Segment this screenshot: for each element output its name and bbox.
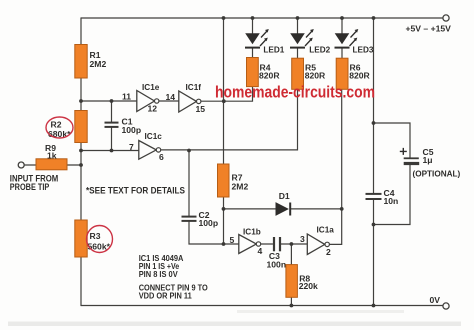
junction top rail / C4 column xyxy=(372,16,376,20)
svg-text:2M2: 2M2 xyxy=(232,181,249,191)
junction C3 / R8 / IC1a input xyxy=(290,242,294,246)
wire R1 bottom to R2 top xyxy=(80,78,82,111)
svg-text:*SEE TEXT FOR DETAILS: *SEE TEXT FOR DETAILS xyxy=(86,186,185,196)
svg-text:100p: 100p xyxy=(199,218,219,228)
wire IC1c input row xyxy=(81,150,139,152)
wire C2 top lead xyxy=(188,151,190,217)
svg-text:PIN 8 IS 0V: PIN 8 IS 0V xyxy=(139,269,178,279)
svg-text:14: 14 xyxy=(166,92,176,102)
svg-text:12: 12 xyxy=(148,104,158,114)
junction R9 / left column xyxy=(79,163,83,167)
wire input terminal to R9 xyxy=(24,164,36,166)
svg-text:220k: 220k xyxy=(299,281,318,291)
svg-text:IC1c: IC1c xyxy=(145,132,163,141)
red circle highlight around R2 xyxy=(46,117,73,138)
svg-text:820R: 820R xyxy=(349,71,370,81)
junction top rail / LED3 xyxy=(340,16,344,20)
capacitor C4 xyxy=(366,194,382,199)
wire IC1a output to LED3 column xyxy=(329,209,341,245)
resistor R8 xyxy=(286,265,318,298)
op-amp U1 inverter IC1a xyxy=(300,226,334,258)
op-amp U1 inverter IC1b xyxy=(230,228,263,257)
capacitor C3 xyxy=(274,237,280,251)
svg-text:homemade-circuits.com: homemade-circuits.com xyxy=(215,83,375,102)
LED D3 LED2 xyxy=(290,29,331,55)
wire C4 bottom to 0V rail xyxy=(373,200,375,306)
junction top rail / LED2 xyxy=(296,16,300,20)
svg-text:0V: 0V xyxy=(430,295,441,305)
junction C4 column / C5 top branch xyxy=(372,121,376,125)
svg-text:+5V – +15V: +5V – +15V xyxy=(406,24,452,34)
wire C1 bottom lead xyxy=(111,128,113,151)
resistor R6 xyxy=(336,58,370,89)
svg-text:2M2: 2M2 xyxy=(90,59,107,69)
svg-text:VDD OR PIN 11: VDD OR PIN 11 xyxy=(139,291,192,301)
svg-text:PROBE TIP: PROBE TIP xyxy=(10,182,50,192)
svg-text:820R: 820R xyxy=(259,70,280,80)
svg-text:LED1: LED1 xyxy=(263,46,284,55)
wire top supply rail xyxy=(81,17,443,19)
LED D2 LED1 xyxy=(245,29,285,55)
svg-text:15: 15 xyxy=(196,104,206,114)
wire supply rail down to C4 xyxy=(373,18,375,193)
junction IC1f output / R7 column xyxy=(222,99,226,103)
wire C5 top branch xyxy=(374,123,411,158)
resistor R9 xyxy=(36,143,67,170)
wire R1 top lead xyxy=(80,18,82,45)
op-amp U1 inverter IC1c xyxy=(129,132,164,162)
wire R7 bottom lead xyxy=(223,197,225,209)
wire IC1e output to IC1f input xyxy=(159,100,179,102)
wire IC1f output to R4 bottom xyxy=(201,87,253,102)
wire LED1 cathode to R4 xyxy=(252,49,254,58)
junction top rail / LED1 xyxy=(251,16,255,20)
wire bottom 0V rail xyxy=(81,305,443,307)
resistor R2 xyxy=(48,111,87,143)
svg-text:1μ: 1μ xyxy=(423,155,433,165)
wire R2 bottom to R3 top xyxy=(80,143,82,221)
wire R3 bottom to 0V rail xyxy=(80,257,82,306)
label IC1 notes xyxy=(139,253,208,301)
capacitor C2 xyxy=(182,217,197,221)
junction C1 bottom xyxy=(110,149,114,153)
junction C4 column / C5 bottom branch xyxy=(372,223,376,227)
resistor R3 xyxy=(75,220,111,257)
svg-text:3: 3 xyxy=(300,234,305,244)
capacitor C5 polarized xyxy=(400,147,461,179)
svg-text:820R: 820R xyxy=(305,71,326,81)
wire supply rail down to R7 top xyxy=(223,18,225,164)
junction C4 column / 0V rail xyxy=(372,304,376,308)
svg-text:IC1e: IC1e xyxy=(142,83,160,92)
svg-text:100p: 100p xyxy=(122,125,142,135)
wire LED2 cathode to R5 xyxy=(297,49,299,59)
junction node A at R1/R2 xyxy=(79,99,83,103)
svg-text:LED2: LED2 xyxy=(309,46,330,55)
wire LED3 top lead xyxy=(341,18,343,33)
junction R7 bottom / D1 row xyxy=(222,207,226,211)
resistor R4 xyxy=(247,58,281,87)
capacitor C1 xyxy=(105,123,119,127)
wire C3 to IC1a input xyxy=(281,243,307,245)
junction R2 bottom row xyxy=(79,149,83,153)
svg-text:LED3: LED3 xyxy=(353,46,374,55)
svg-text:R2: R2 xyxy=(51,120,62,130)
terminal +5V supply xyxy=(443,15,449,21)
junction D1 column / IC1b input row xyxy=(222,242,226,246)
wire R8 top lead xyxy=(290,244,292,265)
wire D1 node down to IC1b input row xyxy=(223,209,225,244)
svg-text:7: 7 xyxy=(129,142,134,152)
wire D1 cathode to LED3 column xyxy=(291,208,341,210)
svg-text:2: 2 xyxy=(326,247,331,257)
svg-text:D1: D1 xyxy=(279,191,290,201)
svg-text:(OPTIONAL): (OPTIONAL) xyxy=(413,170,461,179)
junction top rail / R7 column xyxy=(222,16,226,20)
wire R8 bottom lead xyxy=(290,297,292,305)
wire C5 bottom branch xyxy=(374,165,411,225)
junction C2 top / IC1c out row xyxy=(187,149,191,153)
svg-text:5: 5 xyxy=(230,235,235,245)
svg-text:IC1a: IC1a xyxy=(317,226,335,235)
wire LED1 top lead xyxy=(252,18,254,33)
wire LED3/R6 column down to D1 node xyxy=(341,89,343,209)
wire R7/D1 anode row xyxy=(224,208,277,210)
wire LED3 cathode to R6 xyxy=(341,49,343,59)
svg-text:1k: 1k xyxy=(47,151,57,161)
junction C1 top xyxy=(110,99,114,103)
LED D4 LED3 xyxy=(335,29,374,55)
svg-text:4: 4 xyxy=(258,246,263,256)
wire C2 bottom lead to IC1b input xyxy=(189,221,239,244)
svg-text:IC1b: IC1b xyxy=(243,228,261,237)
junction R8 / 0V rail xyxy=(290,304,294,308)
diode D1 xyxy=(276,191,290,216)
wire IC1b output to C3 xyxy=(261,243,273,245)
red circle highlight around R3 xyxy=(87,226,113,253)
wire node A horizontal (R1/R2/C1/IC1e pin11) xyxy=(81,100,137,102)
wire IC1c output row to R5 bottom xyxy=(161,89,298,150)
input terminal xyxy=(18,162,24,168)
op-amp U1 inverter IC1e xyxy=(122,83,160,114)
op-amp U1 inverter IC1f xyxy=(166,83,206,114)
resistor R5 xyxy=(292,58,326,89)
svg-text:6: 6 xyxy=(159,152,164,162)
resistor R1 xyxy=(75,45,107,79)
wire C1 top lead xyxy=(111,101,113,122)
wire LED2 top lead xyxy=(297,18,299,33)
svg-text:11: 11 xyxy=(122,92,131,102)
wire R9 to left column xyxy=(67,164,81,166)
svg-text:10n: 10n xyxy=(384,196,399,206)
svg-text:R3: R3 xyxy=(90,231,101,241)
svg-text:IC1f: IC1f xyxy=(186,83,202,92)
resistor R7 xyxy=(218,164,249,197)
svg-text:100n: 100n xyxy=(267,259,287,269)
terminal 0V xyxy=(443,303,449,309)
junction D1 cathode / LED3 column xyxy=(340,207,344,211)
